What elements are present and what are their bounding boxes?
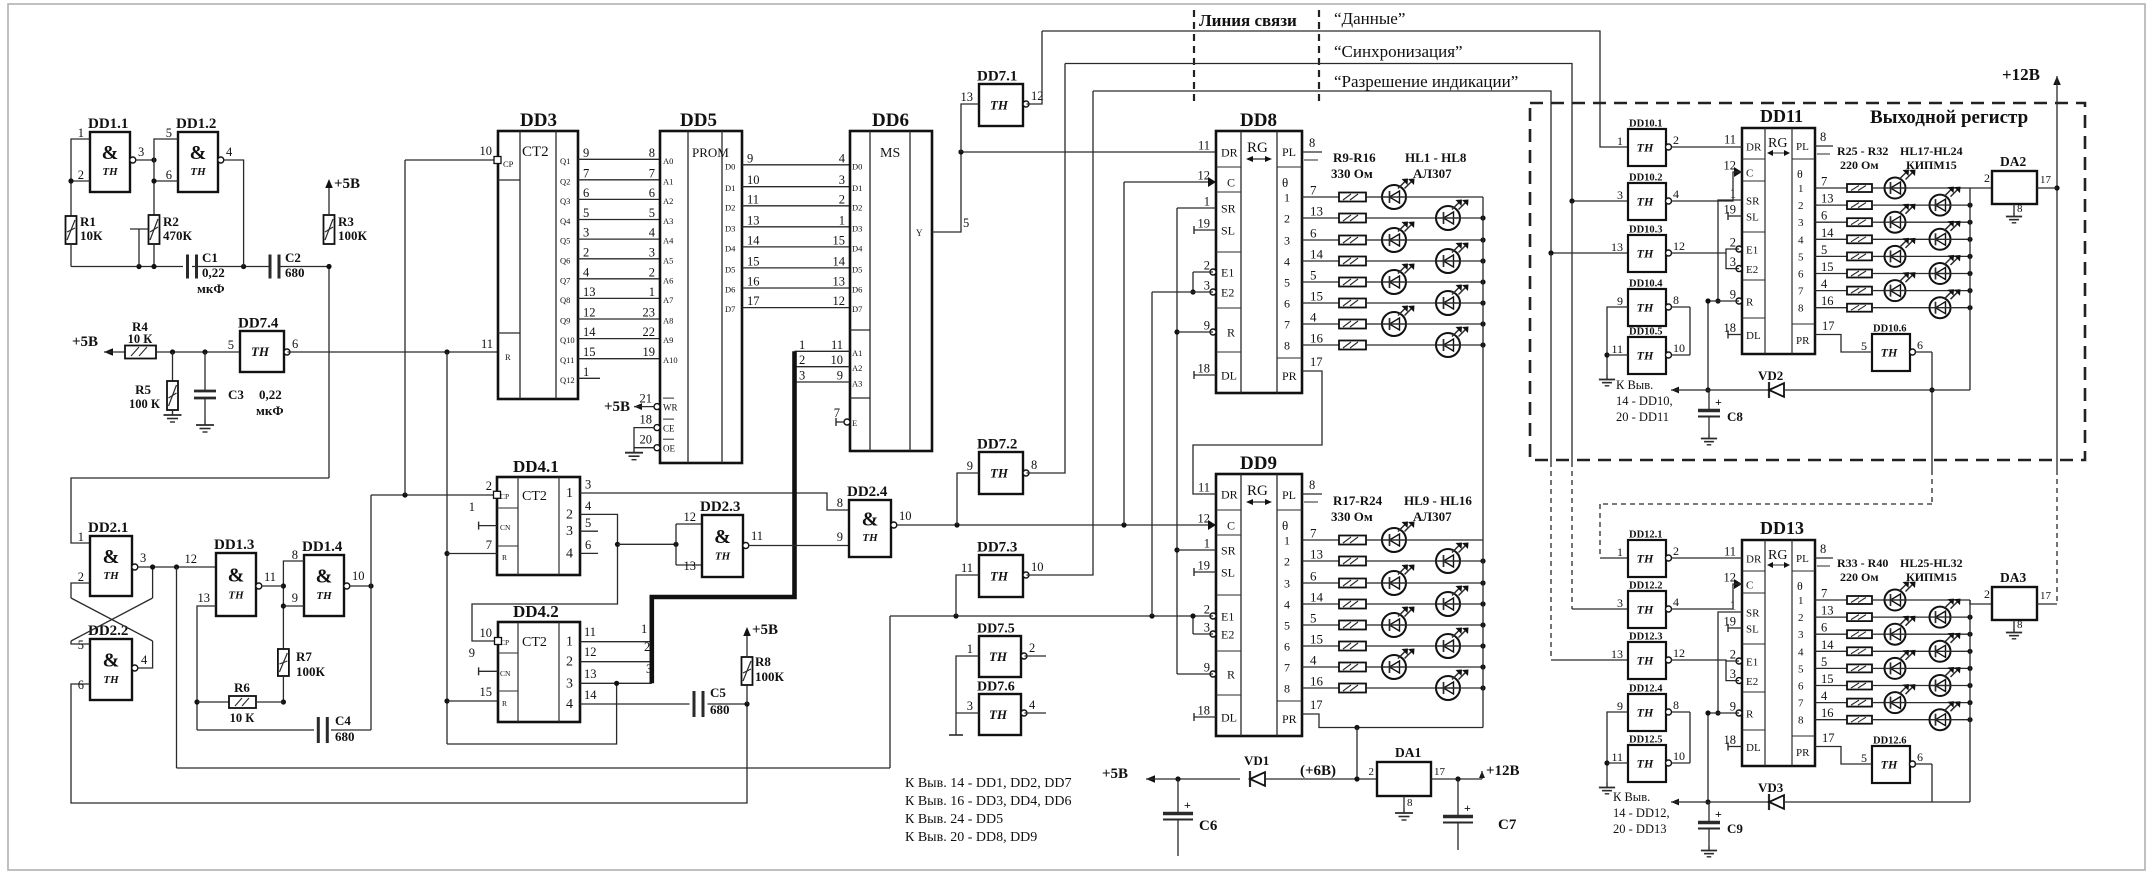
svg-text:DA2: DA2 <box>2000 154 2026 169</box>
+5V supply DD5 WR <box>634 403 642 410</box>
DD5 control pins WR CE OE <box>654 404 660 410</box>
svg-text:14: 14 <box>1821 638 1834 652</box>
svg-text:АЛ307: АЛ307 <box>1413 509 1452 524</box>
svg-text:DD2.4: DD2.4 <box>847 484 888 500</box>
svg-text:9: 9 <box>1730 288 1736 302</box>
svg-text:Q6: Q6 <box>560 255 570 265</box>
svg-text:13: 13 <box>1310 204 1323 219</box>
wire DD7.2 out to sync line <box>1027 64 1066 474</box>
svg-text:DD2.1: DD2.1 <box>88 520 128 536</box>
wire DD2.4 output clock line <box>897 524 1216 526</box>
svg-text:11: 11 <box>1724 545 1736 559</box>
svg-text:4: 4 <box>1284 598 1290 612</box>
svg-text:&: & <box>316 565 333 587</box>
svg-text:A2: A2 <box>663 196 673 206</box>
svg-text:A10: A10 <box>663 355 678 365</box>
svg-text:+5В: +5В <box>72 334 98 350</box>
svg-text:4: 4 <box>839 151 846 165</box>
svg-text:CT2: CT2 <box>522 489 547 504</box>
svg-text:SR: SR <box>1746 608 1760 620</box>
svg-text:4: 4 <box>1821 689 1828 703</box>
wire enable rail up <box>889 616 891 768</box>
svg-text:5: 5 <box>1310 611 1317 626</box>
ground C3 <box>204 420 206 425</box>
wire DD7.5 DD7.6 inputs tied <box>956 656 979 735</box>
svg-text:5: 5 <box>1821 243 1827 257</box>
capacitor C2 <box>269 255 272 279</box>
svg-text:DD1.3: DD1.3 <box>214 537 254 553</box>
svg-text:CT2: CT2 <box>522 635 547 650</box>
svg-text:21: 21 <box>640 392 653 406</box>
svg-text:DD8: DD8 <box>1240 110 1277 131</box>
svg-text:3: 3 <box>649 245 655 259</box>
svg-text:мкФ: мкФ <box>197 281 225 296</box>
svg-text:7: 7 <box>1798 286 1804 298</box>
svg-text:R9-R16: R9-R16 <box>1333 150 1376 165</box>
svg-text:&: & <box>103 649 120 671</box>
svg-text:ТН: ТН <box>190 166 206 178</box>
svg-text:R7: R7 <box>296 649 312 664</box>
svg-text:17: 17 <box>2040 174 2052 186</box>
svg-text:680: 680 <box>710 702 730 717</box>
svg-text:A2: A2 <box>852 363 862 373</box>
cross-coupling wires DD2.1-DD2.2 <box>71 583 90 598</box>
svg-text:DD4.1: DD4.1 <box>513 457 559 476</box>
wire sync line <box>1065 64 1628 202</box>
wire DD7.4 output to DD3.R and DD4 reset <box>288 351 499 353</box>
svg-text:A6: A6 <box>663 275 673 285</box>
svg-text:11: 11 <box>961 561 973 575</box>
wire bus to DA2 <box>1970 187 1992 189</box>
wire DD13 PR to DD12.6 <box>1815 747 1872 765</box>
svg-text:6: 6 <box>1821 209 1827 223</box>
svg-text:E: E <box>852 418 857 428</box>
svg-text:&: & <box>102 142 119 164</box>
svg-text:R: R <box>502 553 507 562</box>
svg-text:+: + <box>1715 807 1722 821</box>
svg-text:θ: θ <box>1282 518 1288 533</box>
svg-text:8: 8 <box>2017 203 2023 215</box>
svg-text:5: 5 <box>963 216 969 230</box>
svg-text:DD11: DD11 <box>1760 106 1803 126</box>
resistor R4 <box>104 351 125 353</box>
svg-text:6: 6 <box>1310 569 1317 584</box>
wire R3 rail down to DD2.1 <box>328 267 330 479</box>
svg-text:2: 2 <box>1984 171 1990 185</box>
svg-text:4: 4 <box>566 546 573 561</box>
svg-text:DD10.1: DD10.1 <box>1629 119 1663 130</box>
svg-text:2: 2 <box>1798 612 1804 624</box>
svg-text:8: 8 <box>2017 619 2023 631</box>
wire DD11 R down to VD2 <box>1708 300 1739 302</box>
svg-text:8: 8 <box>1284 682 1290 696</box>
svg-text:A3: A3 <box>852 379 862 389</box>
svg-text:Q12: Q12 <box>560 375 575 385</box>
svg-text:10: 10 <box>352 569 365 583</box>
svg-text:DD1.1: DD1.1 <box>88 116 128 132</box>
capacitor C9 <box>1698 821 1720 824</box>
svg-text:11: 11 <box>264 570 276 584</box>
resistor R8 <box>746 685 748 704</box>
svg-text:R: R <box>1227 326 1235 340</box>
svg-text:2: 2 <box>1204 259 1210 273</box>
svg-text:Выходной регистр: Выходной регистр <box>1870 107 2028 128</box>
svg-text:+5В: +5В <box>334 176 360 192</box>
svg-text:“Синхронизация”: “Синхронизация” <box>1334 42 1463 61</box>
svg-text:DL: DL <box>1221 711 1237 725</box>
svg-text:14 - DD10,: 14 - DD10, <box>1616 394 1673 408</box>
svg-text:13: 13 <box>1821 604 1834 618</box>
wire bus to DA3 <box>1970 600 1992 604</box>
svg-text:20 - DD11: 20 - DD11 <box>1616 410 1669 424</box>
svg-text:10 К: 10 К <box>230 711 255 725</box>
svg-text:RG: RG <box>1247 140 1268 156</box>
dashed box output register <box>1530 103 2085 460</box>
svg-text:2: 2 <box>1204 603 1210 617</box>
wire DD1.4 pins <box>283 561 304 649</box>
svg-text:3: 3 <box>1730 255 1736 269</box>
svg-text:12: 12 <box>185 552 198 566</box>
svg-text:14: 14 <box>1310 247 1324 262</box>
svg-text:+12В: +12В <box>2002 65 2040 84</box>
svg-text:D6: D6 <box>725 285 735 295</box>
svg-text:A0: A0 <box>663 156 673 166</box>
svg-text:C: C <box>1746 168 1753 180</box>
svg-text:13: 13 <box>583 285 596 299</box>
svg-text:19: 19 <box>1724 203 1737 217</box>
svg-text:7: 7 <box>1821 175 1827 189</box>
wire DD8 PR cascade to DD9 DR <box>1193 371 1322 494</box>
wire DD1.1 inputs <box>71 139 90 216</box>
svg-text:DD4.2: DD4.2 <box>513 602 559 621</box>
svg-text:1: 1 <box>1284 191 1290 205</box>
wire DD7.3 input from enable line <box>956 575 979 616</box>
svg-text:RG: RG <box>1768 548 1787 563</box>
svg-text:680: 680 <box>285 265 305 280</box>
svg-text:16: 16 <box>1821 294 1834 308</box>
svg-text:5: 5 <box>1861 339 1867 353</box>
svg-text:DD10.4: DD10.4 <box>1629 279 1663 290</box>
svg-text:5: 5 <box>78 638 84 652</box>
svg-text:ТН: ТН <box>1637 654 1654 668</box>
svg-text:3: 3 <box>583 226 589 240</box>
svg-text:1: 1 <box>1798 595 1804 607</box>
svg-text:CN: CN <box>500 669 511 678</box>
svg-text:1: 1 <box>78 530 84 544</box>
svg-text:15: 15 <box>1310 289 1323 304</box>
svg-text:A9: A9 <box>663 335 673 345</box>
svg-text:15: 15 <box>1821 672 1834 686</box>
svg-text:10: 10 <box>1673 341 1685 355</box>
svg-text:10: 10 <box>1031 560 1044 574</box>
svg-text:SL: SL <box>1221 566 1235 580</box>
wire DD2.3 out to DD2.4 pin9 <box>749 545 849 547</box>
svg-text:11: 11 <box>831 338 843 352</box>
svg-text:15: 15 <box>583 345 596 359</box>
svg-text:100 К: 100 К <box>129 397 160 411</box>
svg-text:ТН: ТН <box>1881 346 1898 360</box>
svg-text:ТН: ТН <box>228 589 244 601</box>
svg-text:A5: A5 <box>663 255 673 265</box>
svg-text:Q5: Q5 <box>560 236 570 246</box>
svg-text:КИПМ15: КИПМ15 <box>1906 570 1957 584</box>
svg-text:5: 5 <box>1821 655 1827 669</box>
svg-text:16: 16 <box>747 275 760 289</box>
ground DA1 <box>1403 796 1405 808</box>
svg-text:A1: A1 <box>663 176 673 186</box>
svg-text:10: 10 <box>747 173 760 187</box>
svg-text:&: & <box>714 526 731 548</box>
svg-text:17: 17 <box>1434 766 1446 778</box>
wire DD12.1 out to DD13 DR <box>1672 557 1743 559</box>
svg-text:КИПМ15: КИПМ15 <box>1906 158 1957 172</box>
DD6 E input <box>844 419 850 425</box>
svg-text:E2: E2 <box>1221 286 1234 300</box>
svg-text:18: 18 <box>640 413 653 427</box>
svg-text:ТН: ТН <box>1881 758 1898 772</box>
wire DD8 SR-R net <box>1177 207 1216 209</box>
svg-text:C7: C7 <box>1498 817 1517 833</box>
svg-text:3: 3 <box>1798 217 1804 229</box>
svg-text:7: 7 <box>834 406 840 420</box>
svg-text:5: 5 <box>1798 663 1804 675</box>
wire data line <box>1042 31 1628 147</box>
svg-text:15: 15 <box>1821 260 1834 274</box>
svg-text:C1: C1 <box>202 250 218 265</box>
wire sync line to lower block dashed <box>1571 201 1573 462</box>
svg-text:D2: D2 <box>725 202 735 212</box>
wire DD1.3.13 down <box>197 606 216 730</box>
svg-text:17: 17 <box>1310 355 1323 369</box>
svg-text:D0: D0 <box>852 161 862 171</box>
thick bus wire to DD6 address <box>652 351 795 683</box>
ground R5 <box>172 410 174 415</box>
svg-text:DR: DR <box>1746 142 1762 154</box>
svg-text:E2: E2 <box>1221 628 1234 642</box>
svg-text:С9: С9 <box>1727 821 1743 836</box>
svg-text:Q7: Q7 <box>560 275 570 285</box>
resistor R6 <box>197 701 229 703</box>
svg-text:3: 3 <box>799 369 805 383</box>
svg-text:8: 8 <box>1031 458 1037 472</box>
svg-text:14: 14 <box>1821 226 1834 240</box>
svg-text:11: 11 <box>1198 139 1210 153</box>
svg-text:6: 6 <box>1917 750 1923 764</box>
wire DD10.4 DD10.5 inputs <box>1607 307 1628 375</box>
svg-text:PL: PL <box>1282 488 1296 502</box>
wire reset vertical <box>446 352 448 744</box>
wire enable rail <box>176 567 178 768</box>
wire DD9 E1 E2 bracket <box>1193 615 1213 617</box>
svg-text:VD2: VD2 <box>1758 368 1783 383</box>
svg-text:9: 9 <box>1617 294 1623 308</box>
svg-text:1: 1 <box>1798 183 1804 195</box>
svg-text:6: 6 <box>585 538 591 552</box>
svg-text:14: 14 <box>833 254 846 268</box>
svg-text:2: 2 <box>566 507 573 522</box>
resistor R1 <box>66 216 77 244</box>
svg-text:11: 11 <box>747 192 759 206</box>
svg-text:5: 5 <box>166 126 172 140</box>
svg-text:DD5: DD5 <box>680 110 717 131</box>
wire DD7.1 out to data line <box>1027 31 1043 104</box>
svg-text:DD12.3: DD12.3 <box>1629 632 1663 643</box>
resistor R5 <box>172 352 174 381</box>
svg-text:12: 12 <box>583 306 596 320</box>
svg-text:C6: C6 <box>1199 818 1218 834</box>
svg-text:DL: DL <box>1221 369 1237 383</box>
svg-text:15: 15 <box>833 233 846 247</box>
svg-text:17: 17 <box>1822 731 1835 745</box>
svg-text:D6: D6 <box>852 285 862 295</box>
svg-text:3: 3 <box>967 699 973 713</box>
svg-text:DD12.6: DD12.6 <box>1873 736 1907 747</box>
svg-text:3: 3 <box>566 676 573 691</box>
svg-text:19: 19 <box>1724 615 1737 629</box>
svg-text:3: 3 <box>839 173 845 187</box>
svg-text:6: 6 <box>1310 226 1317 241</box>
svg-text:PR: PR <box>1282 712 1297 726</box>
svg-text:100К: 100К <box>338 228 368 243</box>
svg-text:100К: 100К <box>296 664 326 679</box>
svg-text:CT2: CT2 <box>522 144 549 160</box>
svg-text:3: 3 <box>1617 596 1623 610</box>
svg-text:9: 9 <box>747 151 753 165</box>
svg-text:ТН: ТН <box>990 569 1009 584</box>
svg-text:4: 4 <box>141 653 148 667</box>
svg-text:+: + <box>1184 798 1191 812</box>
svg-text:A1: A1 <box>852 348 862 358</box>
svg-text:К Выв.: К Выв. <box>1616 378 1653 392</box>
svg-text:14: 14 <box>583 325 596 339</box>
svg-text:6: 6 <box>1917 338 1923 352</box>
svg-text:23: 23 <box>643 306 656 320</box>
svg-text:9: 9 <box>292 591 298 605</box>
svg-text:CE: CE <box>663 424 675 434</box>
svg-text:16: 16 <box>1821 706 1834 720</box>
wire DD10.3 out to DD11 E1 E2 <box>1672 249 1740 253</box>
svg-text:2: 2 <box>1730 236 1736 250</box>
svg-text:4: 4 <box>1821 277 1828 291</box>
svg-text:DD13: DD13 <box>1760 518 1804 538</box>
wire DD4.1 out2 to DD2.3 inputs <box>618 543 677 545</box>
LED bus DD8 DD9 <box>1482 197 1484 728</box>
svg-text:SL: SL <box>1746 212 1759 224</box>
svg-text:1: 1 <box>1204 537 1210 551</box>
svg-text:9: 9 <box>1617 699 1623 713</box>
wire DD13 SR to R <box>1718 612 1742 713</box>
svg-text:C: C <box>1227 176 1235 190</box>
DD4.1 CN tick <box>479 525 497 527</box>
svg-text:DD10.5: DD10.5 <box>1629 327 1663 338</box>
svg-text:ТН: ТН <box>1637 603 1654 617</box>
svg-text:A8: A8 <box>663 316 673 326</box>
svg-text:CP: CP <box>503 159 514 169</box>
svg-text:220 Ом: 220 Ом <box>1840 158 1879 172</box>
svg-text:ТН: ТН <box>1637 706 1654 720</box>
svg-text:4: 4 <box>566 697 573 712</box>
svg-text:E1: E1 <box>1746 245 1758 257</box>
svg-text:13: 13 <box>833 275 846 289</box>
svg-text:2: 2 <box>799 353 805 367</box>
svg-text:8: 8 <box>1284 339 1290 353</box>
svg-text:R: R <box>502 699 507 708</box>
svg-text:Q1: Q1 <box>560 156 570 166</box>
svg-text:D5: D5 <box>852 264 862 274</box>
svg-text:8: 8 <box>1673 698 1679 712</box>
wire oscillator output vertical <box>370 495 372 730</box>
svg-text:8: 8 <box>1820 130 1826 144</box>
wire DD8 C from sync tap <box>1123 182 1125 525</box>
svg-text:7: 7 <box>649 166 655 180</box>
svg-text:SL: SL <box>1746 624 1759 636</box>
wire DD7.3 out to enable-indication line <box>1027 91 1094 575</box>
svg-text:ТН: ТН <box>1637 247 1654 261</box>
svg-text:Q9: Q9 <box>560 316 570 326</box>
svg-text:4: 4 <box>1310 653 1317 668</box>
wire DD11 PR to DD10.6 <box>1815 335 1872 353</box>
svg-text:8: 8 <box>837 496 843 510</box>
+12V rail dashed to DA3 <box>2056 470 2058 604</box>
svg-text:1: 1 <box>799 338 805 352</box>
svg-text:2: 2 <box>649 265 655 279</box>
svg-text:RG: RG <box>1247 483 1268 499</box>
svg-text:18: 18 <box>1724 321 1737 335</box>
svg-text:DD1.2: DD1.2 <box>176 116 216 132</box>
wire DD10.1 out to DD11 DR <box>1672 146 1743 148</box>
svg-text:DL: DL <box>1746 330 1761 342</box>
wire DD11 SR to R <box>1718 200 1742 301</box>
svg-text:DR: DR <box>1746 554 1762 566</box>
svg-text:4: 4 <box>1284 255 1290 269</box>
svg-text:14 - DD12,: 14 - DD12, <box>1613 806 1670 820</box>
ground C9 <box>1708 846 1710 851</box>
svg-text:+5В: +5В <box>752 622 778 638</box>
wire enable line to lower block dashed <box>1550 253 1552 462</box>
svg-text:D1: D1 <box>852 183 862 193</box>
wire DD2.1 output node <box>138 566 216 568</box>
svg-text:D5: D5 <box>725 264 735 274</box>
svg-text:SR: SR <box>1221 544 1236 558</box>
svg-text:К Выв. 16 - DD3, DD4, DD6: К Выв. 16 - DD3, DD4, DD6 <box>905 794 1072 809</box>
DD13 PL stub <box>1815 557 1833 559</box>
wire bottom rail <box>70 244 72 267</box>
svg-text:470К: 470К <box>163 228 193 243</box>
svg-text:7: 7 <box>583 166 589 180</box>
svg-text:1: 1 <box>1284 534 1290 548</box>
+5V supply left <box>104 348 113 356</box>
svg-text:D0: D0 <box>725 161 735 171</box>
svg-text:13: 13 <box>1821 192 1834 206</box>
svg-text:1: 1 <box>649 285 655 299</box>
svg-text:C3: C3 <box>228 387 244 402</box>
svg-text:3: 3 <box>1284 234 1290 248</box>
svg-text:PR: PR <box>1796 335 1810 347</box>
svg-text:13: 13 <box>684 559 697 573</box>
svg-text:3: 3 <box>1284 577 1290 591</box>
svg-text:OE: OE <box>663 444 675 454</box>
svg-text:5: 5 <box>649 206 655 220</box>
svg-text:C4: C4 <box>335 713 351 728</box>
svg-text:DD7.5: DD7.5 <box>977 622 1015 637</box>
svg-text:HL1 - HL8: HL1 - HL8 <box>1405 150 1467 165</box>
svg-text:R5: R5 <box>135 382 151 397</box>
svg-text:Q10: Q10 <box>560 335 575 345</box>
svg-text:680: 680 <box>335 729 355 744</box>
svg-text:DD3: DD3 <box>520 110 557 131</box>
svg-text:8: 8 <box>1309 136 1315 150</box>
capacitor C7 <box>1457 779 1459 816</box>
